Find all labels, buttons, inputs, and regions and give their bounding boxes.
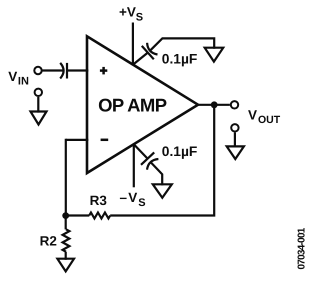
svg-text:R2: R2 — [40, 233, 57, 248]
svg-text:V: V — [248, 107, 257, 122]
svg-text:S: S — [138, 197, 145, 209]
svg-text:OUT: OUT — [258, 114, 281, 126]
svg-text:OP AMP: OP AMP — [98, 94, 167, 115]
svg-text:S: S — [136, 12, 143, 24]
svg-text:+V: +V — [119, 5, 136, 20]
svg-text:–V: –V — [120, 190, 139, 205]
svg-text:R3: R3 — [90, 193, 108, 208]
svg-text:0.1µF: 0.1µF — [162, 52, 198, 67]
svg-text:IN: IN — [18, 76, 29, 88]
svg-text:V: V — [8, 69, 17, 84]
svg-text:0.1µF: 0.1µF — [162, 144, 198, 159]
svg-text:07034-001: 07034-001 — [297, 227, 308, 269]
